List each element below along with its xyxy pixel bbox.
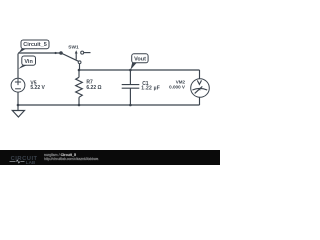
svg-text:LAB: LAB (26, 160, 36, 165)
svg-text:http://circuitlab.com/c/kaznk3: http://circuitlab.com/c/kaznk3txbbwa (44, 157, 98, 161)
svg-text:5.22 V: 5.22 V (30, 85, 45, 91)
svg-text:Vin: Vin (24, 59, 33, 65)
svg-text:Vout: Vout (134, 57, 146, 63)
svg-text:1.22 µF: 1.22 µF (141, 86, 160, 92)
svg-text:SW1: SW1 (68, 45, 79, 51)
svg-text:6.22 Ω: 6.22 Ω (86, 85, 101, 91)
svg-text:0.000 V: 0.000 V (169, 84, 186, 89)
svg-text:Circuit_5: Circuit_5 (23, 42, 47, 48)
